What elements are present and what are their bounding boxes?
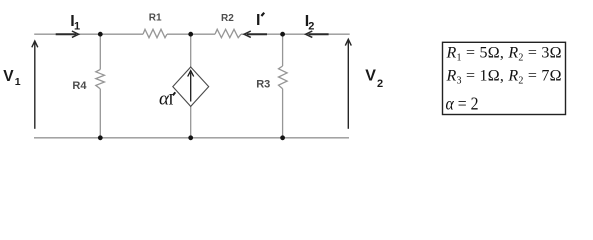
svg-text:V: V xyxy=(3,68,14,85)
svg-text:R3: R3 xyxy=(256,78,270,90)
svg-text:R4: R4 xyxy=(72,80,87,92)
svg-text:R3 = 1Ω, R2 = 7Ω: R3 = 1Ω, R2 = 7Ω xyxy=(446,68,562,87)
svg-text:R1 = 5Ω, R2 = 3Ω: R1 = 5Ω, R2 = 3Ω xyxy=(446,45,562,64)
svg-text:2: 2 xyxy=(377,78,383,90)
svg-text:I: I xyxy=(256,12,260,29)
svg-text:V: V xyxy=(365,68,376,85)
svg-text:R1: R1 xyxy=(149,13,162,24)
svg-text:2: 2 xyxy=(308,21,314,33)
svg-text:R2: R2 xyxy=(221,13,234,24)
svg-text:1: 1 xyxy=(15,76,21,88)
svg-text:α = 2: α = 2 xyxy=(446,93,479,113)
svg-text:1: 1 xyxy=(74,21,80,33)
